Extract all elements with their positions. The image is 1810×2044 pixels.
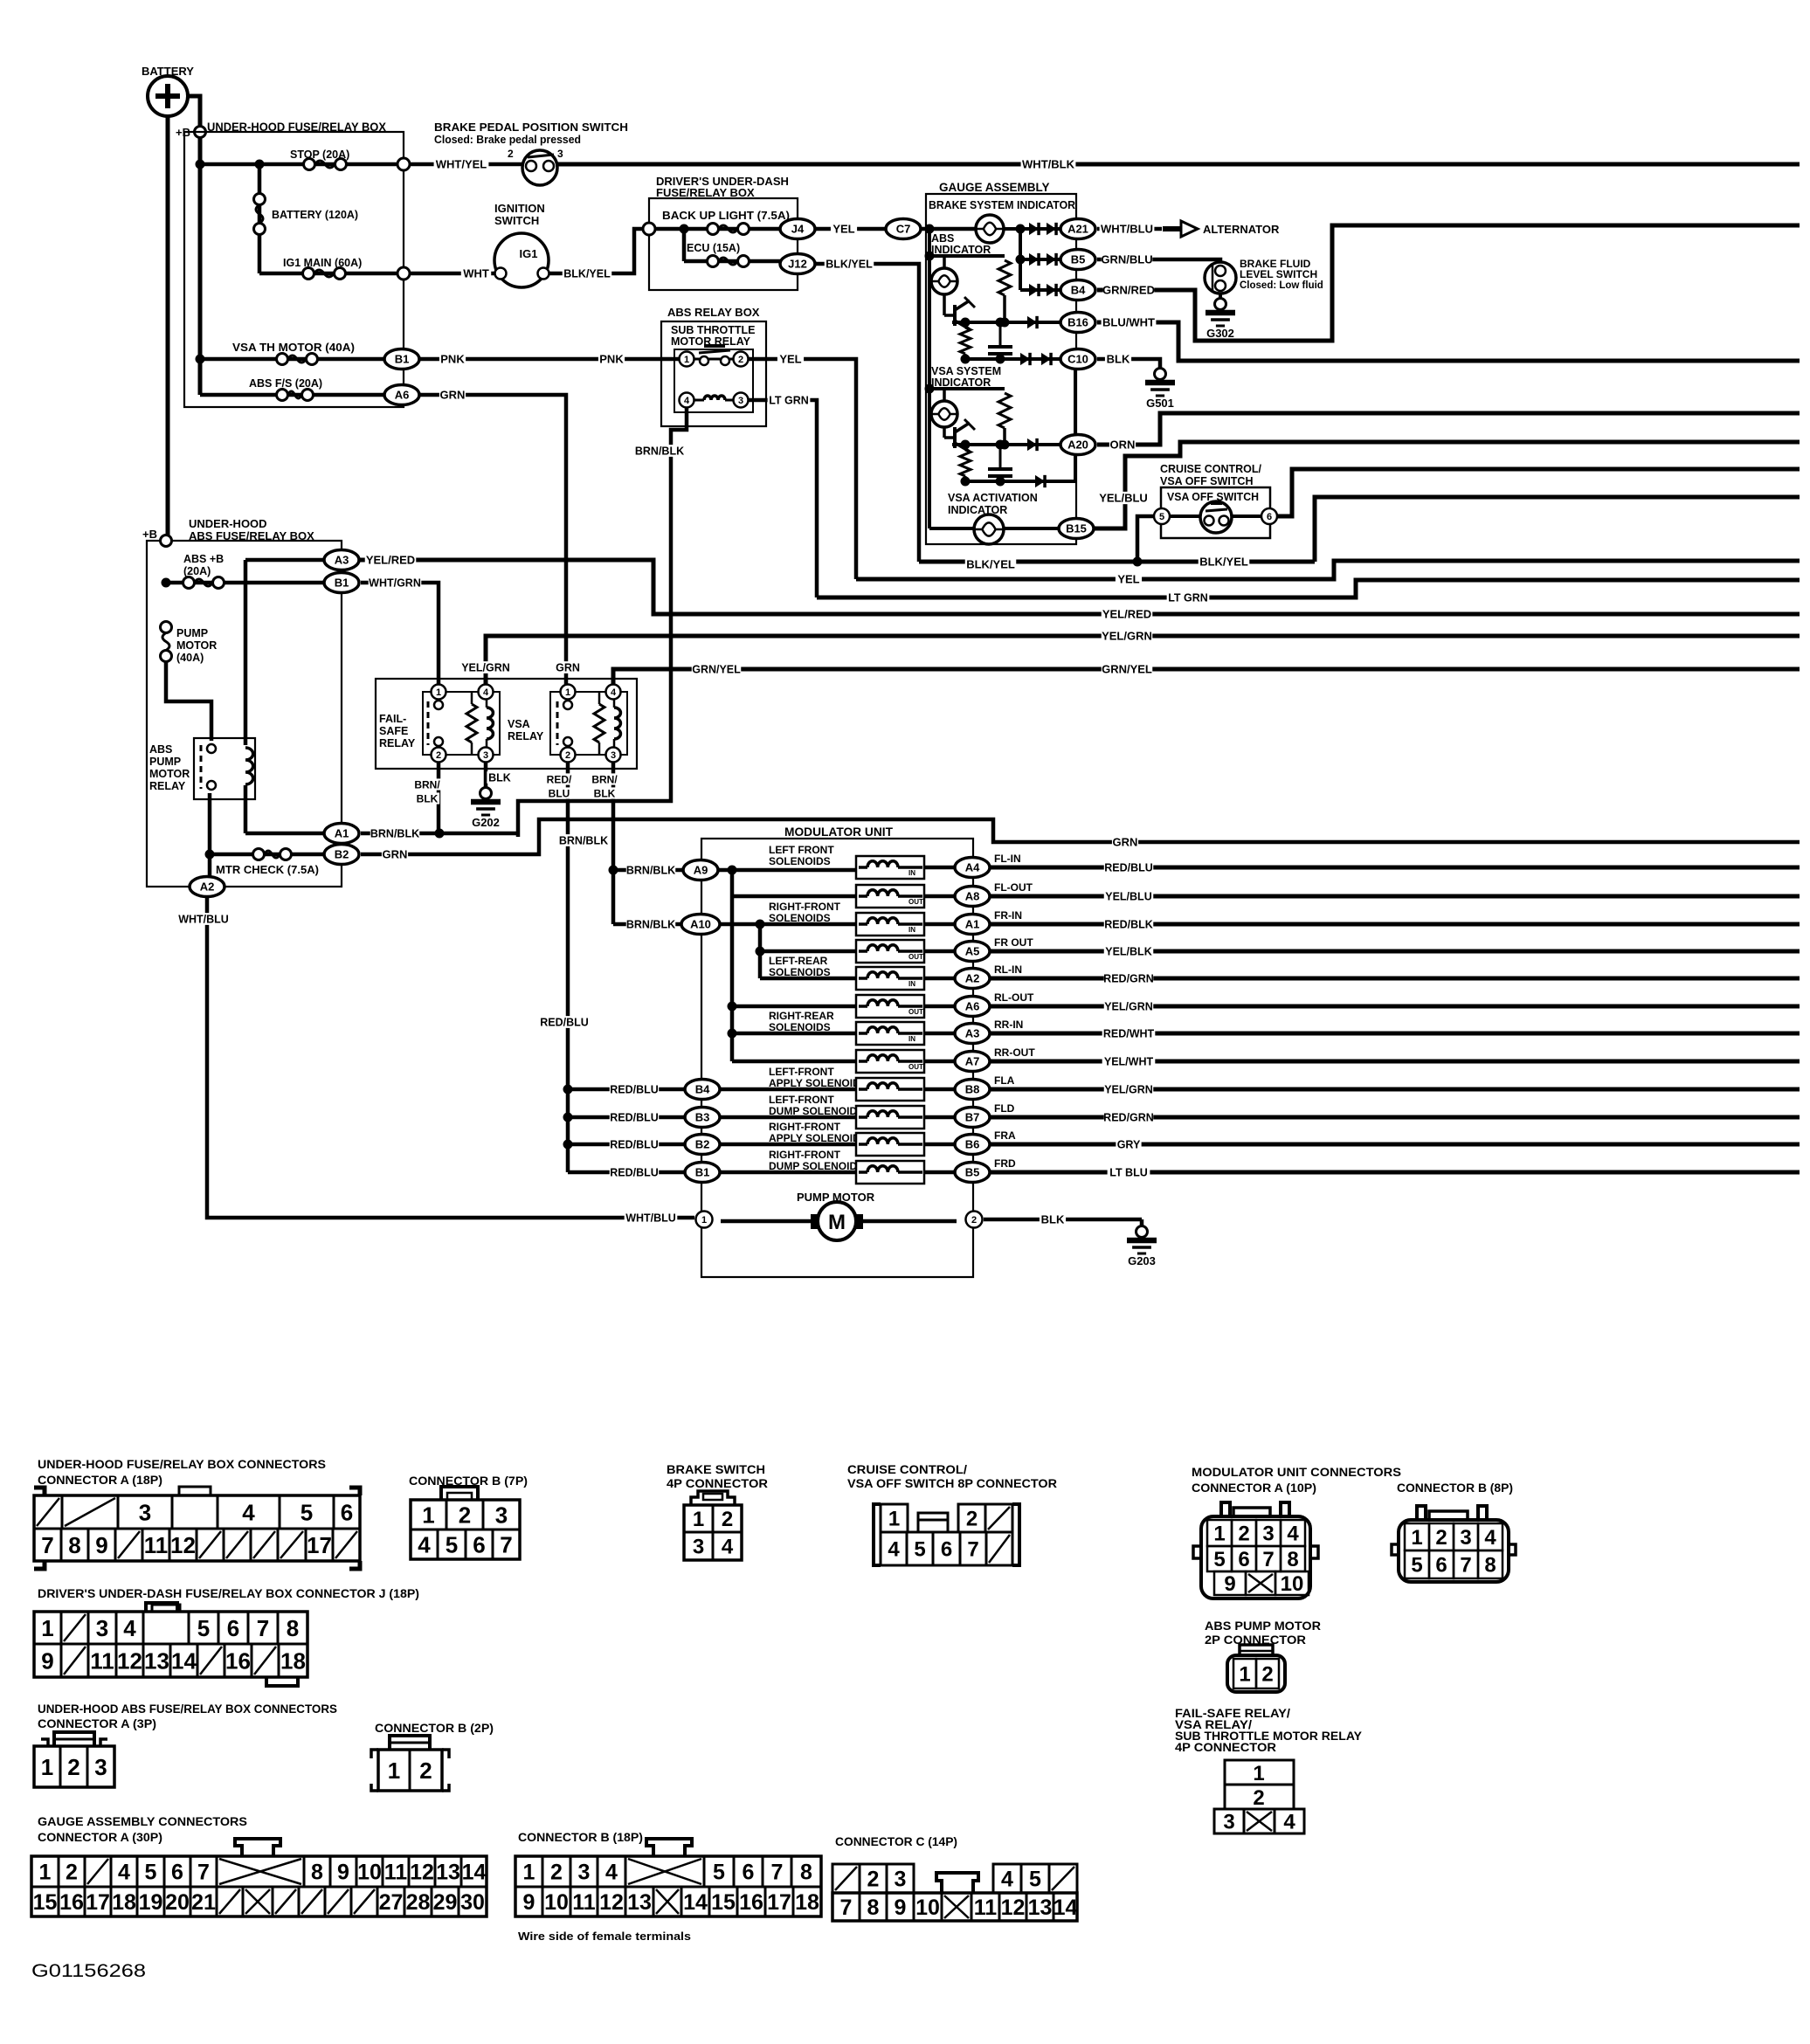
- wire from VSA off switch pin6: [1277, 469, 1800, 516]
- svg-text:PNK: PNK: [599, 353, 624, 366]
- svg-text:15: 15: [33, 1890, 58, 1915]
- ground G501: [1145, 369, 1175, 411]
- svg-text:DUMP SOLENOID: DUMP SOLENOID: [769, 1160, 857, 1172]
- svg-text:1: 1: [1239, 1663, 1250, 1687]
- svg-text:MODULATOR UNIT CONNECTORS: MODULATOR UNIT CONNECTORS: [1192, 1466, 1401, 1479]
- wire LT GRN from relay pin3: [749, 394, 817, 597]
- ground G203: [1136, 1226, 1148, 1238]
- svg-text:UNDER-HOOD FUSE/RELAY BOX CONN: UNDER-HOOD FUSE/RELAY BOX CONNECTORS: [38, 1458, 326, 1471]
- svg-text:1: 1: [388, 1757, 400, 1784]
- svg-text:RED/BLU: RED/BLU: [610, 1084, 659, 1096]
- wire BLK/YEL row: [919, 497, 1800, 571]
- svg-text:MODULATOR UNIT: MODULATOR UNIT: [784, 825, 894, 839]
- svg-text:16: 16: [59, 1890, 84, 1915]
- svg-text:9: 9: [1224, 1572, 1235, 1596]
- svg-text:GRN: GRN: [556, 662, 580, 674]
- wire RED/BLU to B1: [568, 1166, 687, 1178]
- svg-text:12: 12: [410, 1861, 434, 1885]
- svg-text:WHT/BLU: WHT/BLU: [178, 914, 229, 926]
- svg-text:B3: B3: [695, 1111, 710, 1124]
- wire A10 row: [716, 922, 856, 927]
- svg-text:2: 2: [508, 148, 514, 160]
- diodes to A21: [1004, 223, 1060, 290]
- ground G302: [1206, 293, 1235, 340]
- svg-text:7: 7: [771, 1861, 784, 1885]
- svg-text:BLK: BLK: [1107, 353, 1130, 366]
- label LEFT FRONT SOLENOIDS: [769, 844, 834, 867]
- wire GRN/RED long: [1097, 225, 1800, 341]
- svg-text:SOLENOIDS: SOLENOIDS: [769, 1021, 831, 1033]
- svg-text:3: 3: [96, 1615, 108, 1641]
- wire YEL long: [856, 561, 1800, 586]
- solenoid FRA: [856, 1133, 924, 1156]
- svg-text:LEFT-FRONT: LEFT-FRONT: [769, 1066, 834, 1078]
- svg-text:RIGHT-REAR: RIGHT-REAR: [769, 1010, 834, 1022]
- wire B3 row: [704, 1115, 856, 1120]
- wire YEL/BLK long: [990, 945, 1800, 957]
- svg-text:RED/BLU: RED/BLU: [610, 1167, 659, 1179]
- svg-text:3: 3: [578, 1861, 591, 1885]
- svg-text:BATTERY (120A): BATTERY (120A): [272, 209, 358, 221]
- svg-text:2: 2: [971, 1215, 977, 1226]
- VSA driver resistor 2: [960, 450, 971, 481]
- svg-text:LEVEL SWITCH: LEVEL SWITCH: [1240, 268, 1317, 280]
- svg-text:2: 2: [867, 1868, 880, 1892]
- svg-text:ABS +B: ABS +B: [183, 553, 224, 565]
- svg-text:3: 3: [139, 1499, 151, 1525]
- pump motor: [721, 1191, 957, 1240]
- svg-text:GRN: GRN: [440, 389, 466, 402]
- svg-text:BATTERY: BATTERY: [142, 65, 194, 78]
- VSA system indicator: [925, 365, 1005, 401]
- connector oval A6 (underhood): [384, 385, 419, 405]
- wire BRN/BLK from relay pin4: [518, 408, 687, 837]
- svg-text:FR-IN: FR-IN: [994, 909, 1022, 922]
- svg-text:4: 4: [242, 1499, 255, 1525]
- connector oval B1 (modulator): [685, 1163, 720, 1183]
- svg-text:BACK UP LIGHT (7.5A): BACK UP LIGHT (7.5A): [662, 210, 790, 222]
- sub throttle motor relay contact: [694, 346, 734, 365]
- wire RED/BLU long: [990, 861, 1800, 874]
- section label under-hood ABS connectors: [38, 1702, 337, 1730]
- VSA indicator transistor: [944, 419, 975, 452]
- svg-text:17: 17: [767, 1890, 791, 1915]
- svg-text:2: 2: [1238, 1523, 1249, 1546]
- svg-text:3: 3: [895, 1868, 907, 1892]
- svg-text:A7: A7: [965, 1055, 980, 1068]
- sub throttle relay pin 2: [734, 352, 749, 367]
- svg-text:(20A): (20A): [183, 565, 211, 577]
- VSA relay pin 1: [561, 685, 576, 700]
- svg-text:8: 8: [1484, 1554, 1496, 1578]
- svg-text:11: 11: [572, 1890, 596, 1915]
- connector oval B2 (ABS box): [324, 845, 359, 865]
- svg-text:RED/: RED/: [547, 773, 572, 785]
- svg-text:A10: A10: [690, 918, 711, 931]
- svg-text:1: 1: [701, 1215, 707, 1226]
- svg-text:VSA OFF SWITCH 8P CONNECTOR: VSA OFF SWITCH 8P CONNECTOR: [847, 1477, 1057, 1490]
- wire solenoid to B8: [924, 1088, 957, 1092]
- connector oval A3: [955, 1024, 990, 1044]
- ABS pump motor 2P connector: [1205, 1619, 1321, 1692]
- connector oval A20: [1060, 435, 1095, 455]
- svg-text:4: 4: [611, 687, 617, 698]
- wire YEL/WHT long: [990, 1055, 1800, 1067]
- wire BRN/BLK fail-safe pin2 to A1: [413, 763, 441, 833]
- VSA off switch pin 5: [1154, 508, 1170, 524]
- svg-text:RL-OUT: RL-OUT: [994, 991, 1034, 1004]
- svg-text:10: 10: [357, 1861, 382, 1885]
- VSA relay coil and resistor: [594, 692, 620, 755]
- svg-text:GAUGE ASSEMBLY: GAUGE ASSEMBLY: [939, 181, 1050, 194]
- svg-text:ABS: ABS: [931, 232, 954, 245]
- svg-text:7: 7: [840, 1896, 853, 1920]
- svg-text:SOLENOIDS: SOLENOIDS: [769, 912, 831, 924]
- wire GRN B2 row: [361, 819, 1800, 861]
- svg-text:Closed: Brake pedal pressed: Closed: Brake pedal pressed: [434, 134, 581, 146]
- svg-text:INDICATOR: INDICATOR: [931, 376, 991, 389]
- svg-text:BRAKE SWITCH: BRAKE SWITCH: [667, 1463, 765, 1476]
- svg-text:5: 5: [1159, 512, 1164, 522]
- svg-text:15: 15: [711, 1890, 736, 1915]
- wire to A20 row: [952, 438, 1060, 451]
- svg-text:RED/BLU: RED/BLU: [610, 1112, 659, 1124]
- svg-text:ORN: ORN: [1110, 438, 1136, 452]
- wire YEL C7 into gauge: [921, 224, 976, 529]
- wire BRN/BLK A1 row: [361, 827, 518, 839]
- svg-text:BLK/YEL: BLK/YEL: [826, 259, 873, 271]
- connector oval J12: [780, 254, 815, 274]
- svg-text:BLK: BLK: [488, 772, 511, 784]
- svg-text:A5: A5: [965, 945, 980, 958]
- svg-text:13: 13: [627, 1890, 652, 1915]
- svg-text:INDICATOR: INDICATOR: [931, 244, 991, 256]
- connector oval B8: [955, 1080, 990, 1100]
- svg-text:2: 2: [67, 1754, 79, 1780]
- wire RED/BLK long: [990, 918, 1800, 930]
- svg-text:BRN/: BRN/: [414, 778, 440, 791]
- svg-text:CRUISE CONTROL/: CRUISE CONTROL/: [1160, 463, 1262, 475]
- svg-text:7: 7: [41, 1532, 53, 1558]
- fuse BATTERY (120A): [254, 164, 359, 273]
- wire GRN/BLU to brake fluid switch: [1097, 253, 1220, 266]
- svg-text:PUMP: PUMP: [149, 756, 181, 768]
- wire BLK pump motor to G203: [984, 1213, 1142, 1230]
- under-hood fuse/relay box: [184, 121, 404, 407]
- svg-text:4: 4: [118, 1861, 130, 1885]
- connector oval B2 (modulator): [685, 1135, 720, 1155]
- svg-text:YEL: YEL: [1117, 573, 1139, 586]
- svg-text:VSA SYSTEM: VSA SYSTEM: [931, 365, 1001, 377]
- svg-text:BLK: BLK: [417, 792, 439, 804]
- wire solenoid to B5: [924, 1170, 957, 1175]
- wire BRN/BLK to A10: [613, 918, 699, 930]
- svg-text:C10: C10: [1067, 353, 1088, 366]
- svg-text:20: 20: [165, 1890, 190, 1915]
- svg-text:5: 5: [713, 1861, 725, 1885]
- svg-text:IG1: IG1: [520, 247, 538, 260]
- svg-text:1: 1: [1411, 1526, 1422, 1550]
- svg-text:INDICATOR: INDICATOR: [948, 504, 1007, 516]
- svg-text:CONNECTOR C (14P): CONNECTOR C (14P): [835, 1835, 957, 1848]
- svg-text:YEL/WHT: YEL/WHT: [1104, 1056, 1154, 1068]
- svg-text:6: 6: [1267, 512, 1272, 522]
- svg-text:APPLY SOLENOID: APPLY SOLENOID: [769, 1077, 860, 1089]
- svg-text:BLK/YEL: BLK/YEL: [1199, 556, 1248, 569]
- wire YEL from relay pin2: [749, 353, 856, 579]
- ABS indicator resistor: [998, 260, 1011, 328]
- svg-text:RED/BLU: RED/BLU: [1104, 862, 1153, 874]
- svg-text:14: 14: [683, 1890, 708, 1915]
- svg-text:28: 28: [406, 1890, 431, 1915]
- svg-text:G01156268: G01156268: [31, 1961, 146, 1981]
- svg-text:4: 4: [1287, 1523, 1299, 1546]
- wire solenoid to A7: [924, 1060, 957, 1064]
- brake pedal position switch: [434, 121, 628, 185]
- VSA off switch pin 6: [1261, 508, 1277, 524]
- svg-text:6: 6: [227, 1615, 239, 1641]
- wire RED/WHT long: [990, 1027, 1800, 1039]
- svg-text:UNDER-HOOD FUSE/RELAY BOX: UNDER-HOOD FUSE/RELAY BOX: [207, 121, 386, 134]
- svg-text:FR OUT: FR OUT: [994, 936, 1033, 949]
- svg-text:FLD: FLD: [994, 1102, 1015, 1115]
- connector oval A6: [955, 997, 990, 1017]
- connector oval A10: [681, 915, 720, 935]
- sub throttle motor relay coil: [694, 396, 734, 400]
- modulator connector B (8P): [1392, 1506, 1516, 1582]
- wire WHT/YEL: [410, 158, 523, 171]
- svg-text:2: 2: [550, 1861, 563, 1885]
- svg-text:FL-IN: FL-IN: [994, 853, 1021, 865]
- svg-text:3: 3: [557, 148, 563, 160]
- svg-text:4: 4: [1001, 1868, 1013, 1892]
- svg-text:2: 2: [722, 1508, 733, 1531]
- svg-text:16: 16: [225, 1647, 251, 1674]
- brake fluid level switch: [1205, 258, 1323, 293]
- svg-text:FL-OUT: FL-OUT: [994, 881, 1033, 894]
- fail-safe relay contact: [428, 701, 443, 746]
- VSA indicator bulb: [931, 401, 957, 427]
- connector oval A5: [955, 942, 990, 962]
- svg-text:RED/WHT: RED/WHT: [1103, 1028, 1155, 1040]
- fuse STOP (20A): [196, 148, 411, 170]
- svg-text:LEFT-REAR: LEFT-REAR: [769, 955, 828, 967]
- svg-text:MTR CHECK (7.5A): MTR CHECK (7.5A): [216, 864, 319, 876]
- fail-safe relay pin 1: [432, 685, 446, 700]
- svg-text:3: 3: [1262, 1523, 1274, 1546]
- svg-text:FAIL-: FAIL-: [379, 713, 406, 725]
- svg-text:3: 3: [483, 750, 488, 761]
- svg-text:VSA ACTIVATION: VSA ACTIVATION: [948, 492, 1038, 504]
- wire WHT to ignition: [410, 267, 494, 280]
- svg-text:BLU: BLU: [549, 787, 570, 799]
- VSA relay contact: [557, 701, 572, 746]
- label GRN above VSA relay pin1: [555, 661, 580, 673]
- svg-text:17: 17: [86, 1890, 110, 1915]
- label LEFT-FRONT DUMP SOLENOID: [769, 1094, 857, 1117]
- VSA relay pin 2: [561, 748, 576, 763]
- sub throttle relay pin 3: [734, 393, 749, 408]
- svg-text:IN: IN: [908, 1035, 915, 1043]
- svg-text:6: 6: [1435, 1554, 1447, 1578]
- wire YEL/GRN long: [461, 630, 1800, 684]
- svg-text:5: 5: [301, 1499, 313, 1525]
- svg-text:11: 11: [144, 1532, 169, 1558]
- svg-text:A6: A6: [395, 389, 410, 402]
- wire A3 to pump motor relay coil to A1: [245, 560, 325, 833]
- svg-text:LT GRN: LT GRN: [1168, 592, 1208, 604]
- connector oval A2: [955, 969, 990, 989]
- wire relay to A2 and MTR CHECK: [205, 793, 215, 877]
- svg-text:CONNECTOR A (3P): CONNECTOR A (3P): [38, 1717, 156, 1730]
- connector oval C7: [886, 219, 921, 239]
- svg-text:B1: B1: [395, 353, 410, 366]
- svg-text:RED/BLK: RED/BLK: [1104, 919, 1153, 931]
- svg-text:9: 9: [523, 1890, 535, 1915]
- svg-text:2: 2: [1261, 1663, 1273, 1687]
- wire GRN A6 to VSA relay pin1: [420, 389, 566, 684]
- svg-text:RIGHT-FRONT: RIGHT-FRONT: [769, 1121, 841, 1133]
- svg-text:7: 7: [1460, 1554, 1471, 1578]
- svg-text:Wire side of female terminals: Wire side of female terminals: [518, 1930, 691, 1943]
- svg-text:30: 30: [460, 1890, 485, 1915]
- VSA driver capacitor: [988, 445, 1012, 481]
- svg-text:GRY: GRY: [1117, 1139, 1141, 1151]
- sub throttle relay pin 1: [680, 352, 694, 367]
- svg-text:A2: A2: [200, 880, 215, 894]
- svg-text:6: 6: [341, 1499, 353, 1525]
- svg-text:7: 7: [1262, 1548, 1274, 1571]
- wire BLU/WHT long: [1097, 316, 1800, 361]
- svg-text:CONNECTOR B (18P): CONNECTOR B (18P): [518, 1831, 643, 1844]
- svg-text:A3: A3: [965, 1027, 980, 1040]
- wire RED/BLU VSA pin2 down: [540, 763, 590, 1172]
- svg-text:2: 2: [459, 1502, 471, 1528]
- svg-text:5: 5: [1411, 1554, 1422, 1578]
- svg-text:VSA TH MOTOR (40A): VSA TH MOTOR (40A): [232, 342, 355, 354]
- fuse ABS +B (20A): [162, 553, 326, 589]
- svg-text:3: 3: [611, 750, 616, 761]
- svg-text:10: 10: [1281, 1572, 1304, 1596]
- svg-text:18: 18: [795, 1890, 819, 1915]
- svg-text:IGNITION: IGNITION: [494, 202, 545, 215]
- ABS relay box: [661, 306, 766, 426]
- svg-text:VSA: VSA: [508, 718, 530, 730]
- ABS indicator transistor: [944, 294, 975, 329]
- wire RED/GRN long: [990, 972, 1800, 984]
- svg-text:FRD: FRD: [994, 1157, 1016, 1170]
- svg-text:A1: A1: [965, 918, 980, 931]
- svg-text:GRN: GRN: [1113, 836, 1138, 849]
- svg-text:B16: B16: [1067, 316, 1088, 329]
- wire BLK C10 to ground: [1097, 353, 1160, 370]
- svg-text:A8: A8: [965, 890, 980, 903]
- section label modulator unit connectors: [1192, 1466, 1513, 1495]
- svg-text:7: 7: [967, 1538, 978, 1562]
- svg-text:2: 2: [66, 1861, 78, 1885]
- diodes to B4: [1020, 284, 1060, 296]
- svg-text:A2: A2: [965, 972, 980, 985]
- wire BLK/YEL from J12: [815, 258, 919, 562]
- svg-text:3: 3: [1223, 1811, 1234, 1834]
- wire RED/BLU to B2: [568, 1138, 687, 1150]
- svg-text:8: 8: [800, 1861, 812, 1885]
- svg-text:5: 5: [1029, 1868, 1041, 1892]
- wire YEL J4 to C7: [815, 223, 886, 236]
- VSA relay pin 4: [606, 685, 621, 700]
- gauge connector C (14P): [832, 1835, 1077, 1921]
- svg-text:UNDER-HOOD ABS FUSE/RELAY BOX: UNDER-HOOD ABS FUSE/RELAY BOX CONNECTORS: [38, 1702, 337, 1716]
- svg-text:SUB THROTTLE: SUB THROTTLE: [671, 324, 756, 336]
- wire ORN long: [1097, 413, 1800, 452]
- svg-text:WHT/BLU: WHT/BLU: [625, 1212, 676, 1225]
- connector B (7P): [409, 1474, 528, 1559]
- svg-text:M: M: [828, 1211, 846, 1234]
- svg-text:CRUISE CONTROL/: CRUISE CONTROL/: [847, 1463, 967, 1476]
- svg-text:SOLENOIDS: SOLENOIDS: [769, 855, 831, 867]
- svg-text:ALTERNATOR: ALTERNATOR: [1203, 223, 1280, 236]
- fail-safe and VSA relay box: [376, 679, 637, 769]
- svg-text:PUMP: PUMP: [176, 627, 208, 639]
- svg-text:CONNECTOR A (18P): CONNECTOR A (18P): [38, 1474, 162, 1487]
- section label under-hood fuse/relay box connectors: [38, 1458, 326, 1487]
- svg-text:12: 12: [170, 1532, 196, 1558]
- svg-text:YEL: YEL: [779, 353, 801, 366]
- svg-text:OUT: OUT: [908, 953, 923, 961]
- cruise control VSA off switch 8P connector: [847, 1463, 1057, 1565]
- svg-text:18: 18: [112, 1890, 136, 1915]
- wire YEL/GRN long: [990, 1083, 1800, 1095]
- svg-text:J12: J12: [788, 258, 807, 271]
- svg-text:YEL/RED: YEL/RED: [1102, 608, 1151, 621]
- svg-text:5: 5: [446, 1531, 458, 1557]
- svg-text:BRN/: BRN/: [591, 773, 618, 785]
- svg-text:BRN/BLK: BRN/BLK: [626, 865, 675, 877]
- svg-text:4: 4: [684, 396, 690, 406]
- svg-text:B6: B6: [965, 1138, 980, 1151]
- fuse ECU (15A): [684, 229, 780, 267]
- wire solenoid to A3: [924, 1032, 957, 1036]
- svg-text:2: 2: [565, 750, 570, 761]
- svg-text:SWITCH: SWITCH: [494, 214, 539, 227]
- ABS indicator bulb: [931, 268, 957, 294]
- svg-text:MOTOR: MOTOR: [176, 639, 217, 652]
- connector oval B4 (modulator): [685, 1080, 720, 1100]
- svg-text:4P CONNECTOR: 4P CONNECTOR: [667, 1477, 768, 1490]
- svg-text:1: 1: [693, 1508, 704, 1531]
- connector J (18P): [34, 1603, 307, 1686]
- svg-text:4: 4: [1484, 1526, 1496, 1550]
- svg-text:2: 2: [436, 750, 441, 761]
- svg-text:YEL/BLU: YEL/BLU: [1105, 891, 1151, 903]
- modulator unit box: [701, 825, 973, 1277]
- svg-text:WHT/GRN: WHT/GRN: [369, 577, 421, 590]
- label RIGHT-FRONT DUMP SOLENOID: [769, 1149, 857, 1172]
- svg-text:BRN/BLK: BRN/BLK: [370, 828, 419, 840]
- svg-text:8: 8: [68, 1532, 80, 1558]
- brake system indicator bulb: [976, 215, 1004, 243]
- svg-text:1: 1: [39, 1861, 52, 1885]
- svg-text:DRIVER'S UNDER-DASH FUSE/RELAY: DRIVER'S UNDER-DASH FUSE/RELAY BOX CONNE…: [38, 1587, 419, 1600]
- svg-text:5: 5: [914, 1538, 925, 1562]
- svg-text:IG1 MAIN (60A): IG1 MAIN (60A): [283, 257, 362, 269]
- svg-text:YEL/GRN: YEL/GRN: [1104, 1084, 1153, 1096]
- svg-text:RIGHT-FRONT: RIGHT-FRONT: [769, 1149, 841, 1161]
- svg-text:RED/BLU: RED/BLU: [540, 1017, 589, 1029]
- svg-text:1: 1: [422, 1502, 434, 1528]
- svg-text:1: 1: [41, 1615, 53, 1641]
- wire WHT/BLU to alternator: [1097, 221, 1280, 237]
